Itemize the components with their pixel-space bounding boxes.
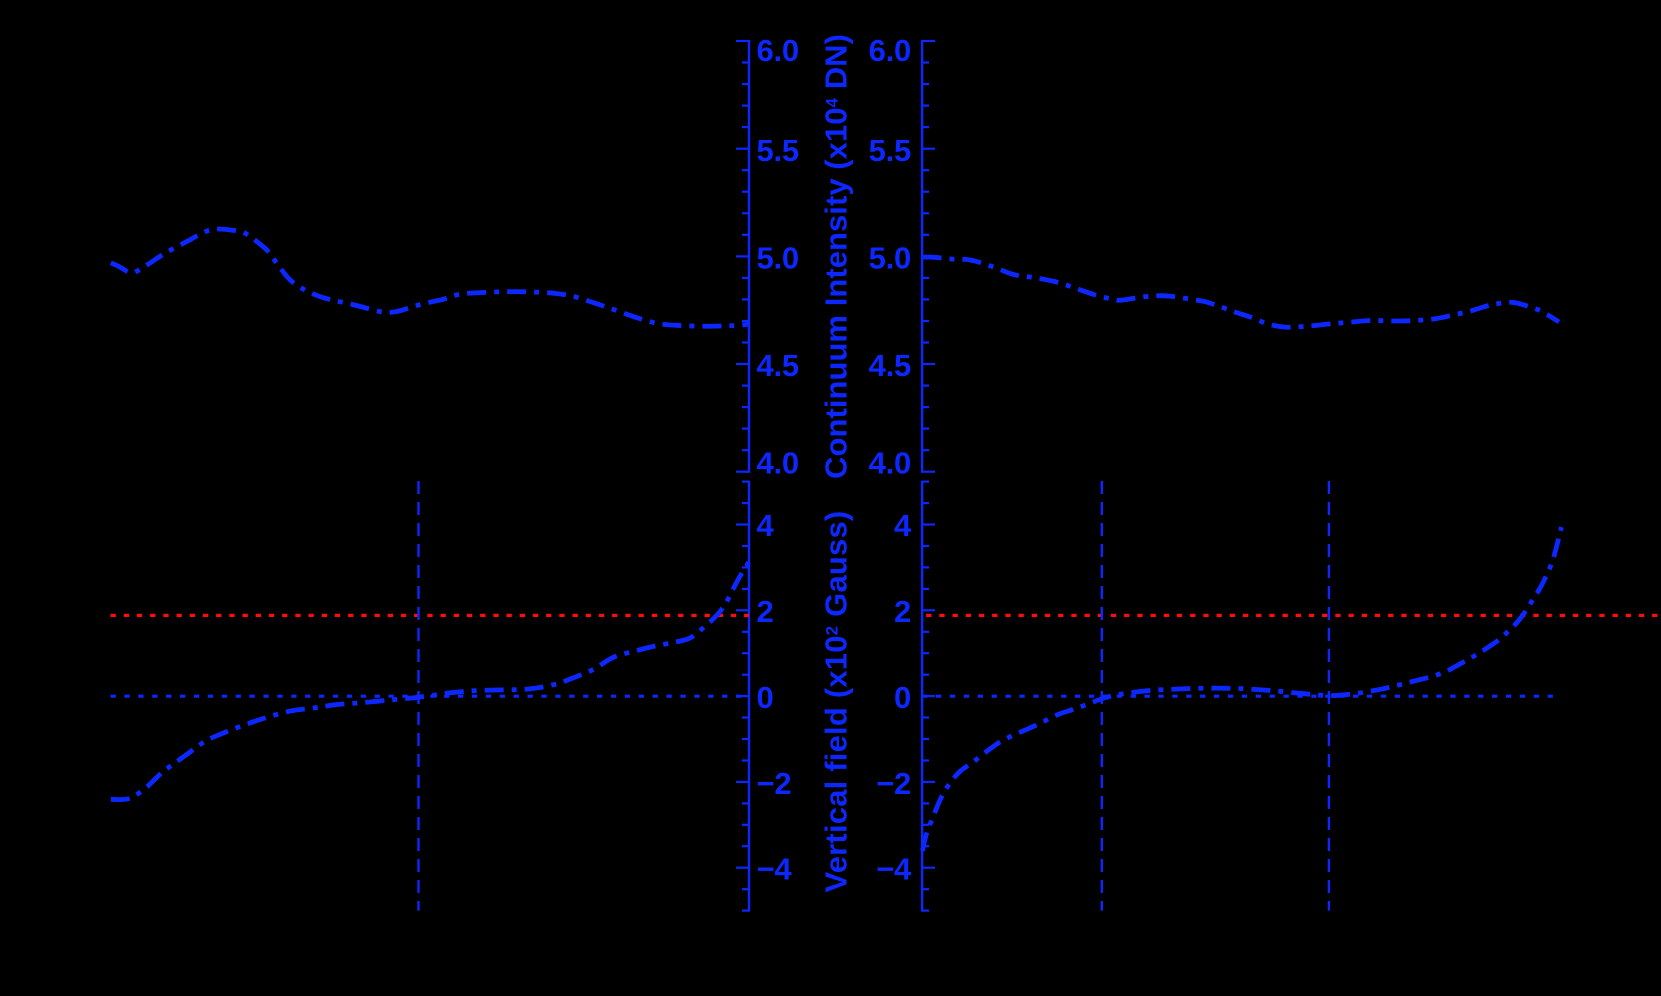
left panel y tick labels (top, continuum): [757, 33, 799, 481]
blue dotted zero line, right panel: [922, 695, 1555, 698]
svg-text:6.0: 6.0: [757, 33, 799, 68]
svg-text:4: 4: [894, 508, 912, 543]
svg-text:Vertical field (x102 Gauss): Vertical field (x102 Gauss): [819, 511, 854, 893]
vertical dashed line 1, right panel: [1101, 481, 1103, 911]
vertical field curve, right panel (dash-dot): [923, 527, 1562, 851]
svg-text:0: 0: [894, 680, 911, 715]
svg-text:4.5: 4.5: [757, 348, 799, 383]
svg-text:6.0: 6.0: [869, 33, 911, 68]
top-right panel left y-axis line: [921, 40, 923, 473]
svg-text:5.0: 5.0: [869, 241, 911, 276]
bottom-right panel left y-axis line: [921, 481, 923, 912]
svg-text:2: 2: [894, 594, 911, 629]
svg-text:4.0: 4.0: [869, 446, 911, 481]
top-left panel right y-axis ticks: [736, 41, 749, 472]
svg-text:2: 2: [757, 594, 774, 629]
svg-text:0: 0: [757, 680, 774, 715]
svg-text:5.5: 5.5: [869, 133, 911, 168]
bottom-left panel right y-axis line: [748, 481, 750, 912]
red dotted threshold line, left panel: [111, 614, 750, 617]
continuum intensity curve, left panel (dash-dot): [111, 229, 749, 326]
continuum intensity curve, right panel (dash-dot): [923, 257, 1560, 327]
vertical dashed line 2, right panel: [1328, 481, 1330, 911]
bottom-left panel right y-axis ticks: [736, 482, 749, 911]
top-right panel left y-axis ticks: [922, 41, 935, 472]
left panel y tick labels (bottom, field): [757, 508, 793, 887]
svg-text:−4: −4: [757, 852, 793, 887]
right panel y tick labels (bottom, field): [876, 508, 912, 887]
svg-text:5.5: 5.5: [757, 133, 799, 168]
svg-text:−2: −2: [876, 766, 911, 801]
svg-text:4.0: 4.0: [757, 446, 799, 481]
bottom-right panel left y-axis ticks: [922, 482, 935, 911]
right panel y tick labels (top, continuum): [869, 33, 911, 481]
svg-text:4.5: 4.5: [869, 348, 911, 383]
top-left panel right y-axis line: [748, 40, 750, 473]
svg-text:4: 4: [757, 508, 775, 543]
svg-text:5.0: 5.0: [757, 241, 799, 276]
vertical dashed line, left panel (polarity inversion): [417, 481, 419, 911]
blue dotted zero line, left panel: [111, 695, 750, 698]
red dotted threshold line, right panel (extends to edge): [922, 614, 1661, 617]
svg-text:−2: −2: [757, 766, 792, 801]
vertical field curve, left panel (dash-dot): [111, 558, 750, 800]
svg-text:−4: −4: [876, 852, 912, 887]
